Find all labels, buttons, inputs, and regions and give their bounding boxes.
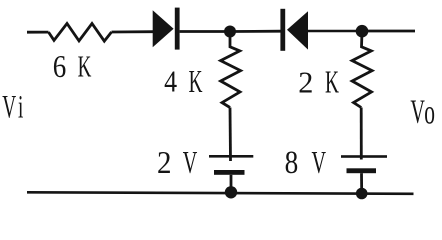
svg-text:V: V [2, 88, 16, 125]
wire: input lead from Vi to resistor R1 [27, 31, 49, 34]
wire: D1 cathode to node A [180, 30, 230, 33]
diode D1 (anode left, cathode bar right) [153, 8, 180, 50]
svg-text:2: 2 [298, 65, 313, 99]
node B junction dot (top of R3) [356, 25, 369, 38]
battery B1 2V (thin long plate over thick short plate) [209, 155, 253, 175]
svg-text:o: o [424, 93, 435, 132]
svg-text:V: V [183, 144, 198, 180]
junction dot: bottom rail under B2 [356, 188, 368, 200]
battery B2 8V (thin long plate over thick short plate) [341, 155, 387, 173]
svg-text:K: K [78, 49, 92, 84]
junction dot: bottom rail under B1 [225, 186, 237, 198]
diode D2 (cathode bar left, anode right, pointing left) [280, 9, 308, 51]
svg-text:8: 8 [285, 144, 299, 181]
wire: node A to diode D2 cathode [230, 30, 281, 33]
svg-text:K: K [325, 65, 339, 100]
wire: bottom rail [27, 192, 414, 194]
svg-text:K: K [189, 64, 203, 99]
label Vo (output terminal) [410, 93, 435, 132]
wire: battery B1 to bottom rail [230, 175, 233, 193]
svg-text:4: 4 [164, 65, 177, 100]
wire: D2 anode to node B [308, 30, 362, 33]
label R2 value 4 K [164, 64, 202, 99]
label Vi (input terminal) [2, 88, 23, 125]
svg-text:2: 2 [157, 144, 172, 180]
svg-text:V: V [410, 93, 425, 131]
resistor R2 4K (shunt, vertical zigzag) [221, 32, 241, 108]
svg-text:i: i [18, 88, 23, 125]
node A junction dot (top of R2) [224, 26, 236, 38]
label B2 value 8 V [285, 144, 327, 181]
wire: node B to output terminal Vo [362, 30, 415, 33]
wire: R3 bottom to battery B2 top plate [360, 108, 363, 160]
resistor R3 2K (shunt, vertical zigzag) [352, 31, 372, 107]
svg-text:V: V [312, 144, 327, 180]
label R3 value 2 K [298, 65, 339, 100]
resistor R1 6K (series, zigzag) [49, 24, 112, 42]
wire: battery B2 to bottom rail [360, 173, 363, 193]
wire: R2 bottom to battery B1 top plate [229, 108, 232, 162]
svg-text:6: 6 [53, 50, 66, 84]
label R1 value 6 K [53, 49, 92, 84]
wire: R1 to diode D1 anode [112, 30, 154, 33]
label B1 value 2 V [157, 144, 197, 180]
